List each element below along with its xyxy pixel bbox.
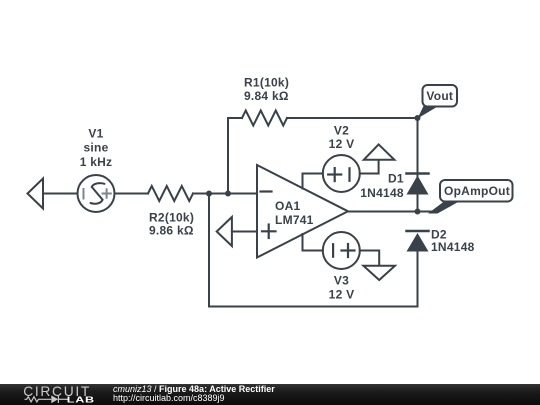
svg-text:9.86 kΩ: 9.86 kΩ (149, 224, 194, 238)
svg-text:OpAmpOut: OpAmpOut (444, 184, 510, 198)
svg-text:1 kHz: 1 kHz (80, 155, 113, 169)
input terminal arrow (28, 179, 44, 209)
svg-text:LM741: LM741 (275, 213, 314, 227)
node Vout junction dot (415, 115, 421, 121)
power arrow up (364, 144, 395, 159)
svg-text:1N4148: 1N4148 (431, 240, 475, 254)
op-amp output wire (348, 211, 436, 213)
svg-text:R2(10k): R2(10k) (149, 210, 194, 224)
OA1 labels (275, 199, 314, 227)
footer credit text (113, 385, 275, 405)
node OpAmpOut junction dot (415, 209, 421, 215)
R2 labels (149, 210, 194, 237)
svg-text:12 V: 12 V (329, 287, 355, 301)
V3 labels (329, 273, 355, 301)
svg-text:OA1: OA1 (275, 199, 301, 213)
svg-text:sine: sine (83, 141, 108, 155)
wire Vout node down through diodes (417, 118, 419, 212)
wire V3 to power arrow down (360, 251, 379, 266)
voltage source V2 (323, 155, 360, 192)
op-amp OA1 (257, 165, 348, 258)
voltage source V3 (323, 232, 360, 269)
svg-text:V1: V1 (88, 126, 103, 140)
node junction dot A (206, 191, 212, 197)
svg-text:V2: V2 (334, 124, 349, 138)
svg-text:D1: D1 (388, 171, 404, 185)
wire node A down to bottom rail (209, 194, 418, 307)
wire + input (232, 231, 257, 233)
voltage source V1 (78, 175, 115, 212)
wire node B up to R1 (228, 118, 242, 194)
R1 labels (244, 76, 289, 103)
footer bar (0, 384, 540, 405)
svg-text:R1(10k): R1(10k) (244, 76, 289, 90)
D2 labels (431, 228, 475, 255)
wire V2 to power arrow (360, 160, 379, 174)
resistor R1 (242, 111, 287, 126)
D1 labels (360, 171, 404, 200)
flag label OpAmpOut (428, 180, 513, 214)
power arrow down (363, 266, 395, 280)
V1 labels (80, 126, 113, 169)
wire R2 to op-amp inverting input (193, 193, 257, 195)
svg-text:9.84 kΩ: 9.84 kΩ (244, 89, 289, 103)
V2 labels (329, 124, 355, 151)
resistor R2 (148, 186, 193, 201)
svg-text:Vout: Vout (426, 89, 453, 103)
svg-text:V3: V3 (334, 273, 349, 287)
non-inverting input arrow (217, 217, 232, 246)
wire V3 to op-amp V- (303, 234, 323, 251)
flag label Vout (418, 85, 458, 119)
footer logo CIRCUITLAB (0, 384, 110, 405)
node junction dot B (225, 191, 231, 197)
diode D2 (407, 231, 429, 252)
svg-text:12 V: 12 V (329, 137, 355, 151)
wire R1 to Vout node (287, 117, 418, 119)
svg-text:LAB: LAB (67, 395, 95, 405)
wire V2 to op-amp V+ (303, 174, 323, 189)
wire arrow to V1 (43, 193, 78, 195)
svg-text:1N4148: 1N4148 (360, 186, 404, 200)
wire V1 to R2 (115, 193, 149, 195)
diode D1 (407, 174, 429, 195)
